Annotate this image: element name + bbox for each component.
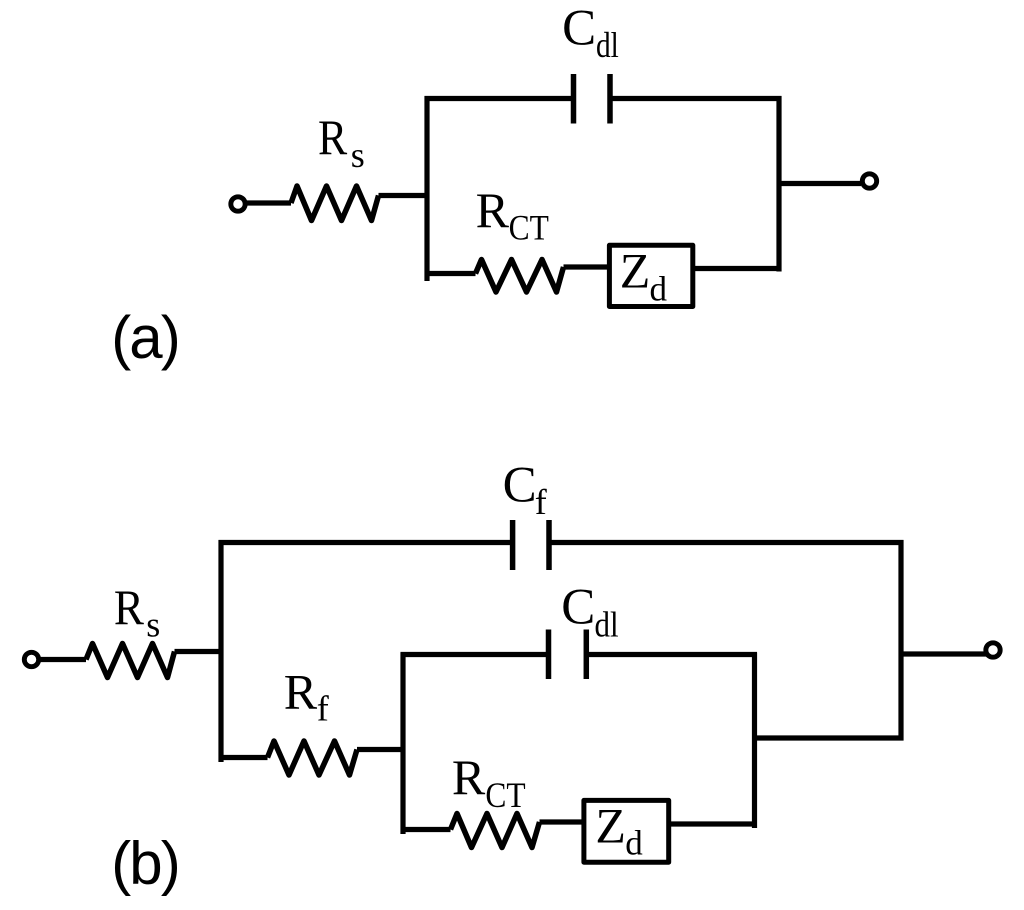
svg-text:dl: dl xyxy=(595,605,619,645)
resistor Rct (b) xyxy=(451,814,540,848)
svg-text:d: d xyxy=(625,824,643,863)
capacitor Cf right plate xyxy=(546,520,552,570)
box Zd (b) xyxy=(584,800,669,862)
wire outer left vertical (b) xyxy=(218,540,223,762)
resistor Rf (b) xyxy=(268,741,358,775)
svg-text:f: f xyxy=(317,689,329,729)
svg-text:CT: CT xyxy=(509,209,550,248)
wire Rf to inner box (b) xyxy=(357,747,406,752)
svg-text:s: s xyxy=(146,605,160,645)
resistor Rs (a) xyxy=(291,186,379,221)
wire inner bottom to Rct (b) xyxy=(401,827,451,832)
wire Zd to inner right vertical (b) xyxy=(669,821,757,826)
wire Rs to node (b) xyxy=(175,649,224,654)
wire inner top left to Cdl (b) xyxy=(401,652,547,657)
svg-text:R: R xyxy=(114,581,144,636)
box Zd (a) xyxy=(609,245,692,306)
svg-text:R: R xyxy=(318,110,348,165)
wire bottom left to Rct (a) xyxy=(425,271,476,276)
svg-text:Z: Z xyxy=(620,242,651,298)
svg-text:R: R xyxy=(452,749,486,805)
capacitor Cdl left plate (a) xyxy=(571,74,577,124)
wire left vertical of parallel box (a) xyxy=(424,96,429,281)
svg-text:f: f xyxy=(535,482,547,522)
wire inner left vertical (b) xyxy=(400,653,405,835)
wire Cdl to right vertical (a) xyxy=(613,96,782,101)
wire output lead (b) xyxy=(901,651,987,656)
wire top left to Cdl (a) xyxy=(425,96,572,101)
svg-text:C: C xyxy=(561,580,595,636)
wire right vertical of parallel box (a) xyxy=(776,96,781,272)
svg-text:s: s xyxy=(351,135,365,175)
wire Zd to right vertical (a) xyxy=(693,266,782,271)
terminal left (a) xyxy=(231,197,245,211)
svg-text:(a): (a) xyxy=(111,304,181,371)
resistor Rct (a) xyxy=(476,260,564,293)
wire inner right vertical (b) xyxy=(752,653,757,829)
terminal right (b) xyxy=(986,643,1000,657)
wire Cf to outer right vertical (b) xyxy=(552,540,904,545)
wire left lead (a) xyxy=(246,200,292,205)
wire inner box to outer right vertical (b) xyxy=(755,735,904,740)
terminal left (b) xyxy=(24,652,38,666)
svg-text:(b): (b) xyxy=(111,830,181,897)
capacitor Cf left plate xyxy=(510,520,516,570)
wire Cdl to inner right vertical (b) xyxy=(589,652,757,657)
svg-text:d: d xyxy=(650,270,668,309)
svg-text:dl: dl xyxy=(596,26,619,65)
terminal right (a) xyxy=(862,174,876,188)
capacitor Cdl right plate (b) xyxy=(584,630,590,680)
wire left lead (b) xyxy=(39,657,86,662)
wire outer bottom to Rf (b) xyxy=(219,755,268,760)
svg-text:R: R xyxy=(476,182,510,238)
svg-text:Z: Z xyxy=(595,797,626,853)
capacitor Cdl right plate (a) xyxy=(607,74,613,124)
wire Rs to node (a) xyxy=(379,193,430,198)
wire top left to Cf (b) xyxy=(219,540,511,545)
wire outer right vertical (b) xyxy=(898,540,903,741)
resistor Rs (b) xyxy=(86,644,175,678)
svg-text:CT: CT xyxy=(485,776,526,815)
svg-text:C: C xyxy=(562,1,596,57)
wire Rct to Zd (a) xyxy=(564,264,610,269)
svg-text:C: C xyxy=(503,458,537,514)
capacitor Cdl left plate (b) xyxy=(546,630,552,680)
wire Rct to Zd (b) xyxy=(540,819,587,824)
svg-text:R: R xyxy=(284,663,318,719)
wire output lead (a) xyxy=(779,181,861,186)
